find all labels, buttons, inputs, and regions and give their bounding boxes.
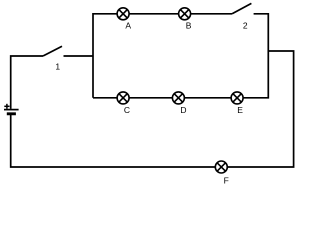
svg-text:1: 1 (55, 62, 60, 72)
svg-text:C: C (124, 105, 130, 115)
svg-text:2: 2 (243, 21, 248, 31)
svg-text:E: E (237, 105, 243, 115)
svg-text:A: A (125, 21, 131, 31)
svg-text:F: F (224, 175, 229, 185)
svg-text:D: D (180, 105, 186, 115)
svg-text:B: B (186, 21, 192, 31)
